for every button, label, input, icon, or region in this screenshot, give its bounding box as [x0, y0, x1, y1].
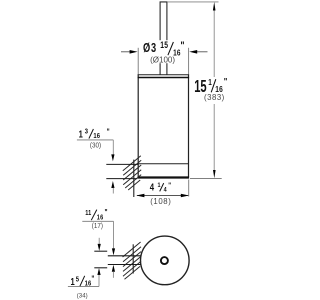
svg-text:1: 1 [71, 276, 75, 287]
svg-text:11: 11 [85, 210, 91, 218]
svg-text:5: 5 [76, 276, 80, 284]
wall line front view [133, 160, 135, 197]
diameter dim arrow right [189, 50, 207, 54]
diameter extension line left [137, 48, 139, 75]
svg-text:": " [105, 207, 108, 217]
wall line top view [132, 244, 134, 273]
svg-text:Ø3: Ø3 [143, 42, 157, 56]
arrow down (15 1/16 bottom) [213, 170, 216, 178]
holder circle top view [141, 236, 190, 285]
dim 30 leader underline [77, 139, 113, 141]
dim 30 lower arrow [111, 181, 114, 194]
dim 17 upper arrow [112, 221, 115, 255]
text knockout backgrounds [142, 40, 235, 102]
svg-text:": " [180, 40, 184, 52]
svg-text:3: 3 [85, 128, 89, 136]
dimension line 15 1/16 vertical [213, 10, 215, 172]
bracket arm upper edge (17 span top) [108, 255, 141, 257]
svg-text:": " [107, 127, 110, 137]
bracket plate upper edge (34 span top) [94, 250, 107, 252]
diameter extension line right [188, 48, 190, 75]
dim 17 leader underline [82, 220, 113, 222]
text 4 1/4" [150, 181, 171, 193]
dim 34 lower arrow [97, 268, 100, 286]
dim 17 lower arrow [112, 265, 115, 278]
bracket arm lower edge (17 span bottom) [108, 264, 141, 266]
diameter dim arrow left [121, 50, 138, 54]
text Ø3 15/16" [143, 40, 185, 57]
arrow up (15 1/16 top) [213, 2, 216, 11]
dim 4 1/4 line with arrows [136, 194, 189, 197]
text 1 3/16" [79, 127, 110, 140]
brush handle rod [160, 2, 167, 75]
svg-text:15: 15 [160, 40, 168, 50]
svg-text:": " [168, 182, 171, 190]
svg-text:(Ø100): (Ø100) [150, 56, 175, 65]
cylinder rim top line [138, 74, 190, 76]
svg-text:(17): (17) [92, 223, 103, 230]
svg-text:16: 16 [93, 132, 100, 140]
text 11/16" [85, 207, 107, 221]
center hole circle [161, 257, 168, 264]
svg-text:4: 4 [164, 186, 168, 194]
svg-text:": " [224, 75, 228, 86]
text 1 5/16" [71, 274, 95, 288]
extension line bottom right (cylinder bottom) [190, 178, 222, 180]
svg-text:1: 1 [158, 181, 162, 189]
svg-text:(383): (383) [204, 93, 225, 102]
svg-text:(108): (108) [150, 197, 171, 206]
dim 34 upper arrow [98, 238, 101, 251]
mounting bracket top edge / extension line [106, 163, 138, 165]
wall hatch top view [123, 242, 141, 279]
base ring top line [138, 163, 188, 165]
svg-text:(30): (30) [90, 142, 101, 149]
dim 30 upper arrow [111, 140, 114, 162]
svg-text:4: 4 [150, 182, 154, 193]
mounting bracket bottom edge / extension line [106, 178, 137, 180]
right extension line for 4 1/4 [188, 180, 190, 197]
dim 34 leader underline [68, 285, 99, 287]
cylinder bottom thick line [138, 176, 190, 178]
svg-text:16: 16 [85, 280, 92, 288]
bracket plate lower edge (34 span bottom) [94, 267, 107, 269]
wall hatch front view [123, 156, 141, 190]
extension line top (rod top to height dim) [167, 1, 218, 3]
svg-text:1: 1 [208, 77, 212, 87]
holder cylinder body [138, 75, 188, 177]
cylinder rim lower line [138, 77, 190, 79]
text 15 1/16" [194, 75, 227, 96]
svg-text:": " [91, 274, 94, 284]
svg-text:1: 1 [79, 128, 83, 139]
svg-text:16: 16 [97, 214, 104, 222]
svg-text:(34): (34) [77, 292, 88, 299]
